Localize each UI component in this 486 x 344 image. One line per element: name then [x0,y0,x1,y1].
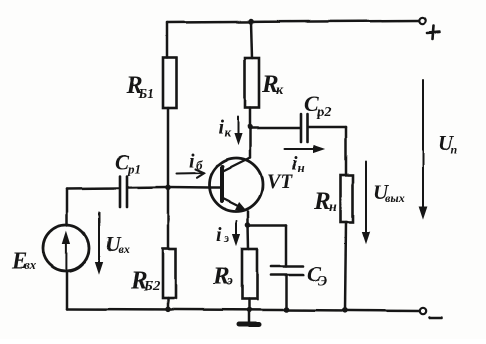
svg-text:н: н [298,160,305,175]
svg-text:i: i [216,224,222,246]
svg-text:i: i [189,150,195,172]
svg-text:вх: вх [24,257,37,272]
svg-text:к: к [276,83,284,98]
svg-text:вх: вх [118,242,129,256]
svg-text:Э: Э [318,274,327,289]
svg-text:вых: вых [385,191,405,205]
svg-text:э: э [226,274,233,289]
svg-text:Б1: Б1 [137,87,154,102]
svg-text:р2: р2 [316,105,331,120]
svg-text:к: к [224,125,231,140]
svg-text:р1: р1 [127,161,141,176]
svg-text:п: п [451,142,458,156]
svg-text:VT: VT [267,171,293,193]
svg-text:н: н [329,200,337,215]
svg-text:э: э [223,230,230,245]
svg-text:б: б [196,157,203,172]
svg-text:Б2: Б2 [143,279,160,294]
